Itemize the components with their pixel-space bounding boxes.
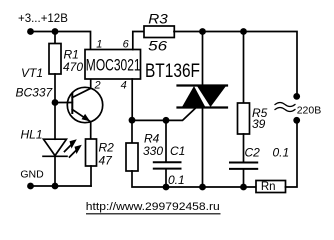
svg-text:6: 6: [123, 39, 130, 51]
svg-text:BT136F: BT136F: [145, 61, 200, 82]
svg-text:BC337: BC337: [16, 86, 54, 100]
svg-text:0.1: 0.1: [168, 173, 185, 187]
svg-text:MOC3021: MOC3021: [86, 56, 141, 74]
svg-text:330: 330: [143, 144, 163, 158]
svg-text:+3...+12В: +3...+12В: [18, 13, 68, 25]
svg-text:2: 2: [94, 79, 101, 91]
svg-text:47: 47: [99, 154, 114, 168]
svg-text:R2: R2: [99, 141, 115, 155]
svg-text:VT1: VT1: [21, 66, 43, 80]
svg-text:C2: C2: [245, 146, 261, 160]
svg-text:39: 39: [252, 117, 266, 131]
svg-text:GND: GND: [20, 168, 44, 180]
svg-text:R3: R3: [148, 10, 168, 26]
svg-text:220В: 220В: [297, 105, 322, 117]
svg-text:Rn: Rn: [261, 181, 276, 193]
svg-text:1: 1: [96, 39, 102, 51]
svg-text:470: 470: [63, 60, 83, 74]
svg-text:C1: C1: [170, 144, 185, 158]
svg-text:0.1: 0.1: [273, 146, 290, 160]
svg-text:56: 56: [148, 37, 167, 53]
svg-text:http://www.299792458.ru: http://www.299792458.ru: [86, 201, 220, 213]
svg-text:4: 4: [121, 79, 127, 91]
svg-text:HL1: HL1: [21, 128, 43, 142]
